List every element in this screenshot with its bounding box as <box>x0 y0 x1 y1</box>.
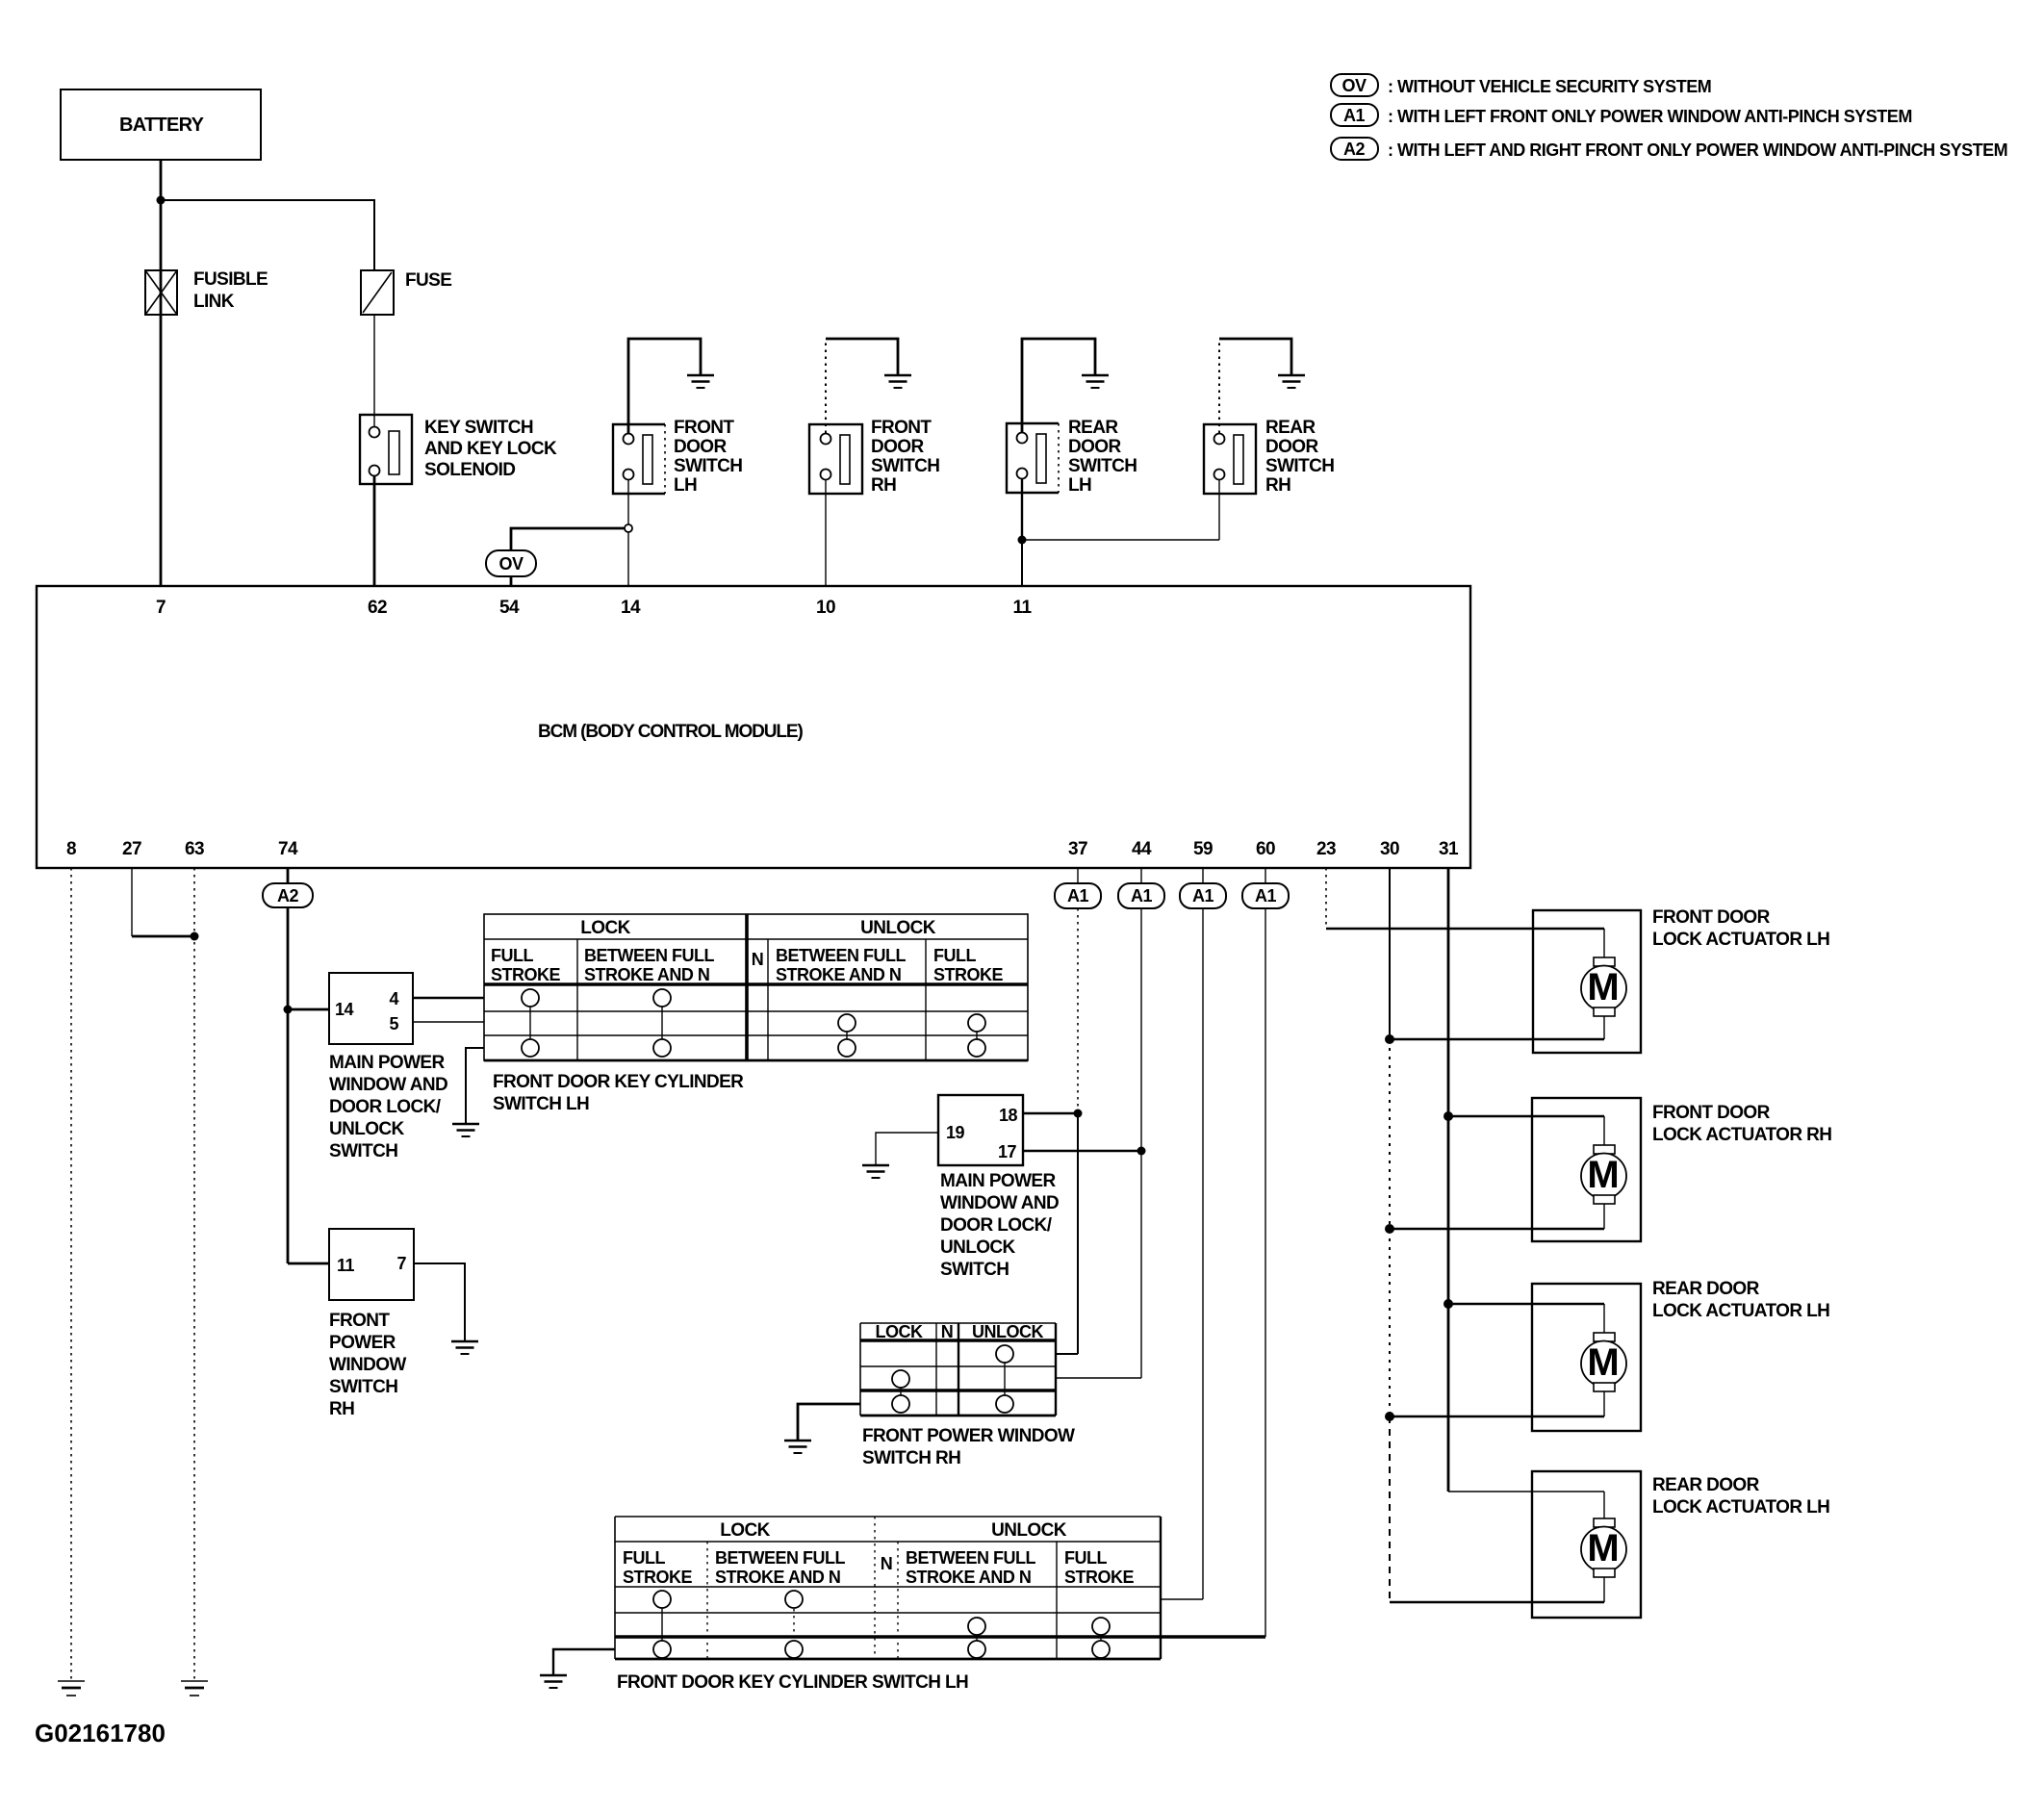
svg-text:11: 11 <box>337 1256 355 1275</box>
wire node to BCM pin 14 <box>627 532 629 586</box>
figure number G02161780 <box>35 1719 166 1747</box>
svg-text:FULL: FULL <box>1064 1548 1107 1568</box>
svg-text:A1: A1 <box>1343 106 1365 125</box>
wire pin74 run to front power window switch RH <box>288 1263 329 1265</box>
connector option A1 on pin 44 <box>1118 883 1164 908</box>
svg-text:A2: A2 <box>1343 140 1365 159</box>
svg-text:STROKE AND N: STROKE AND N <box>715 1568 840 1587</box>
svg-text:LOCK: LOCK <box>580 918 630 938</box>
pin 54 label <box>499 598 520 618</box>
svg-text:SWITCH: SWITCH <box>1265 456 1334 476</box>
svg-text:19: 19 <box>946 1123 965 1142</box>
svg-text:FRONT: FRONT <box>871 418 932 438</box>
svg-text:FULL: FULL <box>491 946 533 965</box>
ground G6 <box>862 1165 889 1178</box>
wire pin 60 run <box>1265 868 1266 1637</box>
svg-text:STROKE: STROKE <box>623 1568 693 1587</box>
front door key cylinder switch LH T1 <box>484 914 1028 1114</box>
svg-text:M: M <box>1587 1341 1619 1384</box>
legend option OV <box>1331 74 1711 96</box>
svg-text:LOCK: LOCK <box>720 1520 770 1541</box>
wire pin 27 to node 63 <box>132 868 194 936</box>
svg-text:4: 4 <box>389 989 398 1008</box>
node junction 31 rear LH <box>1444 1299 1453 1309</box>
svg-text:SWITCH: SWITCH <box>329 1141 397 1161</box>
svg-text:BETWEEN FULL: BETWEEN FULL <box>776 946 906 965</box>
front door lock actuator LH M1 <box>1533 907 1829 1053</box>
svg-text:A1: A1 <box>1131 886 1152 905</box>
ground G1 <box>687 375 714 388</box>
wire SW4 pin 17 to pin 44 line <box>1023 1150 1141 1152</box>
svg-text:A1: A1 <box>1192 886 1214 905</box>
fusible link FL <box>145 269 268 315</box>
svg-text:BETWEEN FULL: BETWEEN FULL <box>906 1548 1035 1568</box>
svg-text:STROKE: STROKE <box>1064 1568 1135 1587</box>
node battery junction <box>157 196 166 205</box>
svg-text:SWITCH LH: SWITCH LH <box>493 1094 589 1114</box>
wire SW3 pin 7 to ground <box>414 1263 465 1341</box>
svg-text:LINK: LINK <box>193 292 235 312</box>
wire battery junction to fuse <box>161 200 374 270</box>
connector option A1 on pin 37 <box>1055 883 1101 908</box>
svg-text:DOOR: DOOR <box>1068 437 1121 457</box>
ground G11 <box>540 1675 567 1688</box>
pin 14 label <box>621 598 641 618</box>
wire T3 common row to ground <box>553 1649 615 1675</box>
pin 74 label <box>278 839 298 859</box>
svg-text:27: 27 <box>122 839 141 859</box>
svg-text:OV: OV <box>498 554 524 574</box>
wire 30 to front door lock actuator LH lower terminal <box>1390 1038 1604 1040</box>
svg-text:UNLOCK: UNLOCK <box>940 1237 1016 1258</box>
wire SW2 pin 4 to key cylinder table <box>413 997 484 999</box>
svg-text:DOOR LOCK/: DOOR LOCK/ <box>329 1097 442 1117</box>
svg-text:UNLOCK: UNLOCK <box>991 1520 1067 1541</box>
wire fuse to key switch <box>373 315 375 427</box>
svg-text:WINDOW AND: WINDOW AND <box>329 1075 447 1095</box>
svg-text:POWER: POWER <box>329 1333 396 1353</box>
node junction pin74 branch <box>284 1006 293 1014</box>
svg-text:UNLOCK: UNLOCK <box>972 1322 1043 1341</box>
node junction 30 rear LH <box>1385 1412 1394 1421</box>
front door key cylinder switch LH T3 <box>615 1517 1161 1693</box>
svg-text:STROKE AND N: STROKE AND N <box>584 965 709 984</box>
svg-text:5: 5 <box>389 1014 398 1033</box>
svg-text:A1: A1 <box>1255 886 1276 905</box>
svg-text:59: 59 <box>1193 839 1213 859</box>
svg-text:FULL: FULL <box>933 946 976 965</box>
svg-text:AND KEY LOCK: AND KEY LOCK <box>424 439 557 459</box>
BCM body control module U1 <box>37 586 1470 868</box>
rear door lock actuator RH M4 <box>1532 1471 1829 1618</box>
svg-text:WINDOW: WINDOW <box>329 1355 406 1375</box>
wire 31 to front door lock actuator RH upper terminal <box>1448 1115 1604 1117</box>
svg-text:N: N <box>941 1322 954 1341</box>
node junction 30 front LH <box>1385 1034 1394 1044</box>
svg-text:SWITCH: SWITCH <box>871 456 939 476</box>
svg-text:FRONT POWER WINDOW: FRONT POWER WINDOW <box>862 1426 1075 1446</box>
wire pin 23 to front door lock actuator LH <box>1326 868 1604 929</box>
front power window switch RH SW3 <box>329 1229 414 1419</box>
ground G10 <box>181 1681 208 1696</box>
svg-text:BETWEEN FULL: BETWEEN FULL <box>715 1548 845 1568</box>
legend option A1 <box>1331 104 1912 126</box>
svg-text:LOCK ACTUATOR LH: LOCK ACTUATOR LH <box>1652 1301 1829 1321</box>
node junction 31 front RH <box>1444 1111 1453 1121</box>
wire pin 8 to ground (dashed) <box>70 868 72 1681</box>
pin 62 label <box>368 598 387 618</box>
svg-text:54: 54 <box>499 598 520 618</box>
pin 37 label <box>1068 839 1087 859</box>
svg-text:SWITCH: SWITCH <box>1068 456 1137 476</box>
svg-text:M: M <box>1587 966 1619 1008</box>
rear door switch LH S3 <box>1007 418 1137 496</box>
wire junction to BCM pin 11 <box>1021 540 1023 586</box>
svg-text:FRONT DOOR KEY CYLINDER: FRONT DOOR KEY CYLINDER <box>493 1072 744 1092</box>
svg-text:23: 23 <box>1316 839 1336 859</box>
svg-text:REAR: REAR <box>1068 418 1118 438</box>
svg-text:10: 10 <box>816 598 835 618</box>
rear door lock actuator LH M3 <box>1532 1279 1829 1431</box>
front door switch LH S1 <box>613 418 742 496</box>
wire pin 74 main run <box>287 868 290 1263</box>
svg-text:17: 17 <box>998 1142 1017 1161</box>
legend option A2 <box>1331 138 2007 160</box>
wire S4 to ground (dotted riser) <box>1219 339 1291 433</box>
svg-text:G02161780: G02161780 <box>35 1719 166 1747</box>
wire 30 to front door lock actuator RH lower terminal <box>1390 1228 1604 1230</box>
pin 27 label <box>122 839 141 859</box>
ground G2 <box>884 375 911 388</box>
svg-text:KEY SWITCH: KEY SWITCH <box>424 418 533 438</box>
svg-text:8: 8 <box>66 839 76 859</box>
svg-text:: WITH LEFT FRONT ONLY POWER W: : WITH LEFT FRONT ONLY POWER WINDOW ANTI… <box>1388 107 1912 126</box>
ground G4 <box>1278 375 1305 388</box>
svg-text:REAR DOOR: REAR DOOR <box>1652 1279 1760 1299</box>
svg-text:N: N <box>881 1554 893 1573</box>
wire S2 to ground (dotted riser) <box>826 339 898 433</box>
front power window switch RH contact table T2 <box>860 1322 1075 1468</box>
wire key switch to BCM pin 62 <box>373 475 376 586</box>
svg-text:SWITCH: SWITCH <box>674 456 742 476</box>
main power window and door lock unlock switch RH SW4 <box>938 1095 1059 1280</box>
svg-text:RH: RH <box>871 475 896 496</box>
wire 30 to rear door lock actuator RH lower terminal <box>1390 1601 1604 1603</box>
wire pin 63 to ground (dotted) <box>193 868 195 1681</box>
svg-text:WINDOW AND: WINDOW AND <box>940 1193 1059 1213</box>
wire OV to BCM pin 54 <box>510 576 513 586</box>
wire 31 to rear door lock actuator RH upper terminal <box>1448 1491 1604 1492</box>
svg-text:FRONT DOOR KEY CYLINDER SWITCH: FRONT DOOR KEY CYLINDER SWITCH LH <box>617 1672 968 1693</box>
svg-text:MAIN POWER: MAIN POWER <box>940 1171 1056 1191</box>
svg-text:MAIN POWER: MAIN POWER <box>329 1053 445 1073</box>
svg-text:7: 7 <box>396 1254 406 1273</box>
svg-text:BCM (BODY CONTROL MODULE): BCM (BODY CONTROL MODULE) <box>538 722 804 742</box>
svg-text:M: M <box>1587 1527 1619 1569</box>
node junction 18-37 <box>1074 1110 1083 1118</box>
ground G9 <box>58 1681 85 1696</box>
svg-text:RH: RH <box>329 1399 354 1419</box>
svg-text:60: 60 <box>1256 839 1275 859</box>
svg-text:REAR DOOR: REAR DOOR <box>1652 1475 1760 1495</box>
svg-text:N: N <box>752 950 764 969</box>
pin 30 label <box>1380 839 1399 859</box>
node junction 17-44 <box>1137 1147 1146 1156</box>
svg-text:M: M <box>1587 1154 1619 1196</box>
node open junction on pin 14 wire <box>625 524 632 532</box>
svg-text:A2: A2 <box>277 886 298 905</box>
wire node to OV connector <box>511 528 625 550</box>
ground G7 <box>451 1341 478 1354</box>
wire pin 30 run <box>1389 868 1391 1602</box>
wire T1 common row to ground <box>466 1048 484 1124</box>
pin 63 label <box>185 839 204 859</box>
svg-text:UNLOCK: UNLOCK <box>329 1119 405 1139</box>
connector option A2 <box>263 883 313 907</box>
wire battery to BCM pin 7 <box>160 160 163 586</box>
svg-text:63: 63 <box>185 839 204 859</box>
svg-text:30: 30 <box>1380 839 1399 859</box>
svg-text:LOCK ACTUATOR LH: LOCK ACTUATOR LH <box>1652 930 1829 950</box>
svg-text:UNLOCK: UNLOCK <box>860 918 936 938</box>
fuse F1 <box>361 270 451 315</box>
svg-text:A1: A1 <box>1067 886 1088 905</box>
svg-text:OV: OV <box>1341 76 1367 95</box>
svg-text:STROKE: STROKE <box>491 965 561 984</box>
wire T2 common row to ground <box>798 1404 860 1441</box>
svg-text:DOOR LOCK/: DOOR LOCK/ <box>940 1215 1053 1236</box>
connector option A1 on pin 59 <box>1180 883 1226 908</box>
wire S1 to node 14 <box>627 479 629 524</box>
wire SW4 pin 18 to pin 37 line <box>1023 1112 1078 1114</box>
svg-text:74: 74 <box>278 839 298 859</box>
ground G8 <box>784 1441 811 1453</box>
wire 31 to rear door lock actuator LH upper terminal <box>1448 1303 1604 1305</box>
svg-text:FUSIBLE: FUSIBLE <box>193 269 268 290</box>
svg-text:31: 31 <box>1439 839 1459 859</box>
svg-text:FUSE: FUSE <box>405 270 451 291</box>
svg-text:STROKE AND N: STROKE AND N <box>776 965 901 984</box>
wire T3 lock row to pin 60 (thick row line) <box>615 1635 1265 1639</box>
svg-text:DOOR: DOOR <box>674 437 727 457</box>
svg-text:62: 62 <box>368 598 387 618</box>
wire S2 to BCM pin 10 <box>825 479 827 586</box>
svg-text:11: 11 <box>1013 598 1033 618</box>
wire pin74 junction to main power window switch LH <box>288 1008 329 1011</box>
svg-text:FULL: FULL <box>623 1548 665 1568</box>
svg-text:LOCK: LOCK <box>876 1322 923 1341</box>
svg-text:LH: LH <box>1068 475 1091 496</box>
svg-text:FRONT: FRONT <box>329 1311 390 1331</box>
pin 10 label <box>816 598 835 618</box>
svg-text:SWITCH RH: SWITCH RH <box>862 1448 960 1468</box>
wire junction to S4 <box>1022 539 1219 541</box>
pin 59 label <box>1193 839 1213 859</box>
wire pin 59 run <box>1161 868 1203 1599</box>
wire S4 to junction <box>1218 479 1220 540</box>
svg-text:STROKE: STROKE <box>933 965 1004 984</box>
wire pin 44 run <box>1056 868 1141 1378</box>
svg-text:RH: RH <box>1265 475 1290 496</box>
svg-text:REAR: REAR <box>1265 418 1316 438</box>
svg-text:SOLENOID: SOLENOID <box>424 460 515 480</box>
svg-text:LH: LH <box>674 475 697 496</box>
ground G3 <box>1082 375 1109 388</box>
pin 11 label <box>1013 598 1033 618</box>
svg-text:44: 44 <box>1132 839 1152 859</box>
pin 60 label <box>1256 839 1275 859</box>
wire pin 37 run <box>1056 868 1078 1354</box>
wire 30 to rear door lock actuator LH lower terminal <box>1390 1416 1604 1417</box>
wire S3 down to junction <box>1021 478 1023 540</box>
svg-text:LOCK ACTUATOR LH: LOCK ACTUATOR LH <box>1652 1497 1829 1518</box>
connector option A1 on pin 60 <box>1242 883 1289 908</box>
battery B1 <box>61 89 261 160</box>
wire S3 to ground <box>1022 339 1095 432</box>
svg-text:FRONT: FRONT <box>674 418 734 438</box>
wire S1 to ground <box>628 339 701 433</box>
pin 7 label <box>156 598 166 618</box>
wire pin 31 run <box>1447 868 1450 1492</box>
connector option OV <box>486 550 536 576</box>
svg-text:14: 14 <box>621 598 641 618</box>
svg-text:BETWEEN FULL: BETWEEN FULL <box>584 946 714 965</box>
svg-text:SWITCH: SWITCH <box>940 1260 1009 1280</box>
pin 23 label <box>1316 839 1336 859</box>
svg-text:SWITCH: SWITCH <box>329 1377 397 1397</box>
ground G5 <box>452 1124 479 1136</box>
svg-text:DOOR: DOOR <box>1265 437 1318 457</box>
svg-text:FRONT DOOR: FRONT DOOR <box>1652 907 1771 928</box>
svg-text:BATTERY: BATTERY <box>119 115 205 136</box>
key switch and key lock solenoid SW1 <box>360 415 557 484</box>
wire SW4 pin 19 to ground <box>876 1133 938 1165</box>
pin 44 label <box>1132 839 1152 859</box>
svg-text:FRONT DOOR: FRONT DOOR <box>1652 1103 1771 1123</box>
svg-text:18: 18 <box>999 1106 1018 1125</box>
rear door switch RH S4 <box>1204 418 1334 496</box>
svg-text:7: 7 <box>156 598 166 618</box>
svg-text:: WITH LEFT AND RIGHT FRONT O: : WITH LEFT AND RIGHT FRONT ONLY POWER W… <box>1388 140 2007 160</box>
node junction 30 front RH <box>1385 1224 1394 1234</box>
svg-text:LOCK ACTUATOR RH: LOCK ACTUATOR RH <box>1652 1125 1831 1145</box>
svg-text:37: 37 <box>1068 839 1087 859</box>
front door switch RH S2 <box>809 418 939 496</box>
svg-text:: WITHOUT VEHICLE SECURITY SYS: : WITHOUT VEHICLE SECURITY SYSTEM <box>1388 77 1711 96</box>
front door lock actuator RH M2 <box>1532 1098 1831 1241</box>
main power window and door lock unlock switch LH SW2 <box>329 973 447 1161</box>
svg-text:14: 14 <box>335 1000 354 1019</box>
wire SW2 pin 5 to key cylinder table <box>413 1021 484 1023</box>
svg-text:DOOR: DOOR <box>871 437 924 457</box>
pin 31 label <box>1439 839 1459 859</box>
node junction pin 11 <box>1018 536 1027 545</box>
svg-text:STROKE AND N: STROKE AND N <box>906 1568 1031 1587</box>
pin 8 label <box>66 839 76 859</box>
node junction 27-63 <box>191 932 199 941</box>
